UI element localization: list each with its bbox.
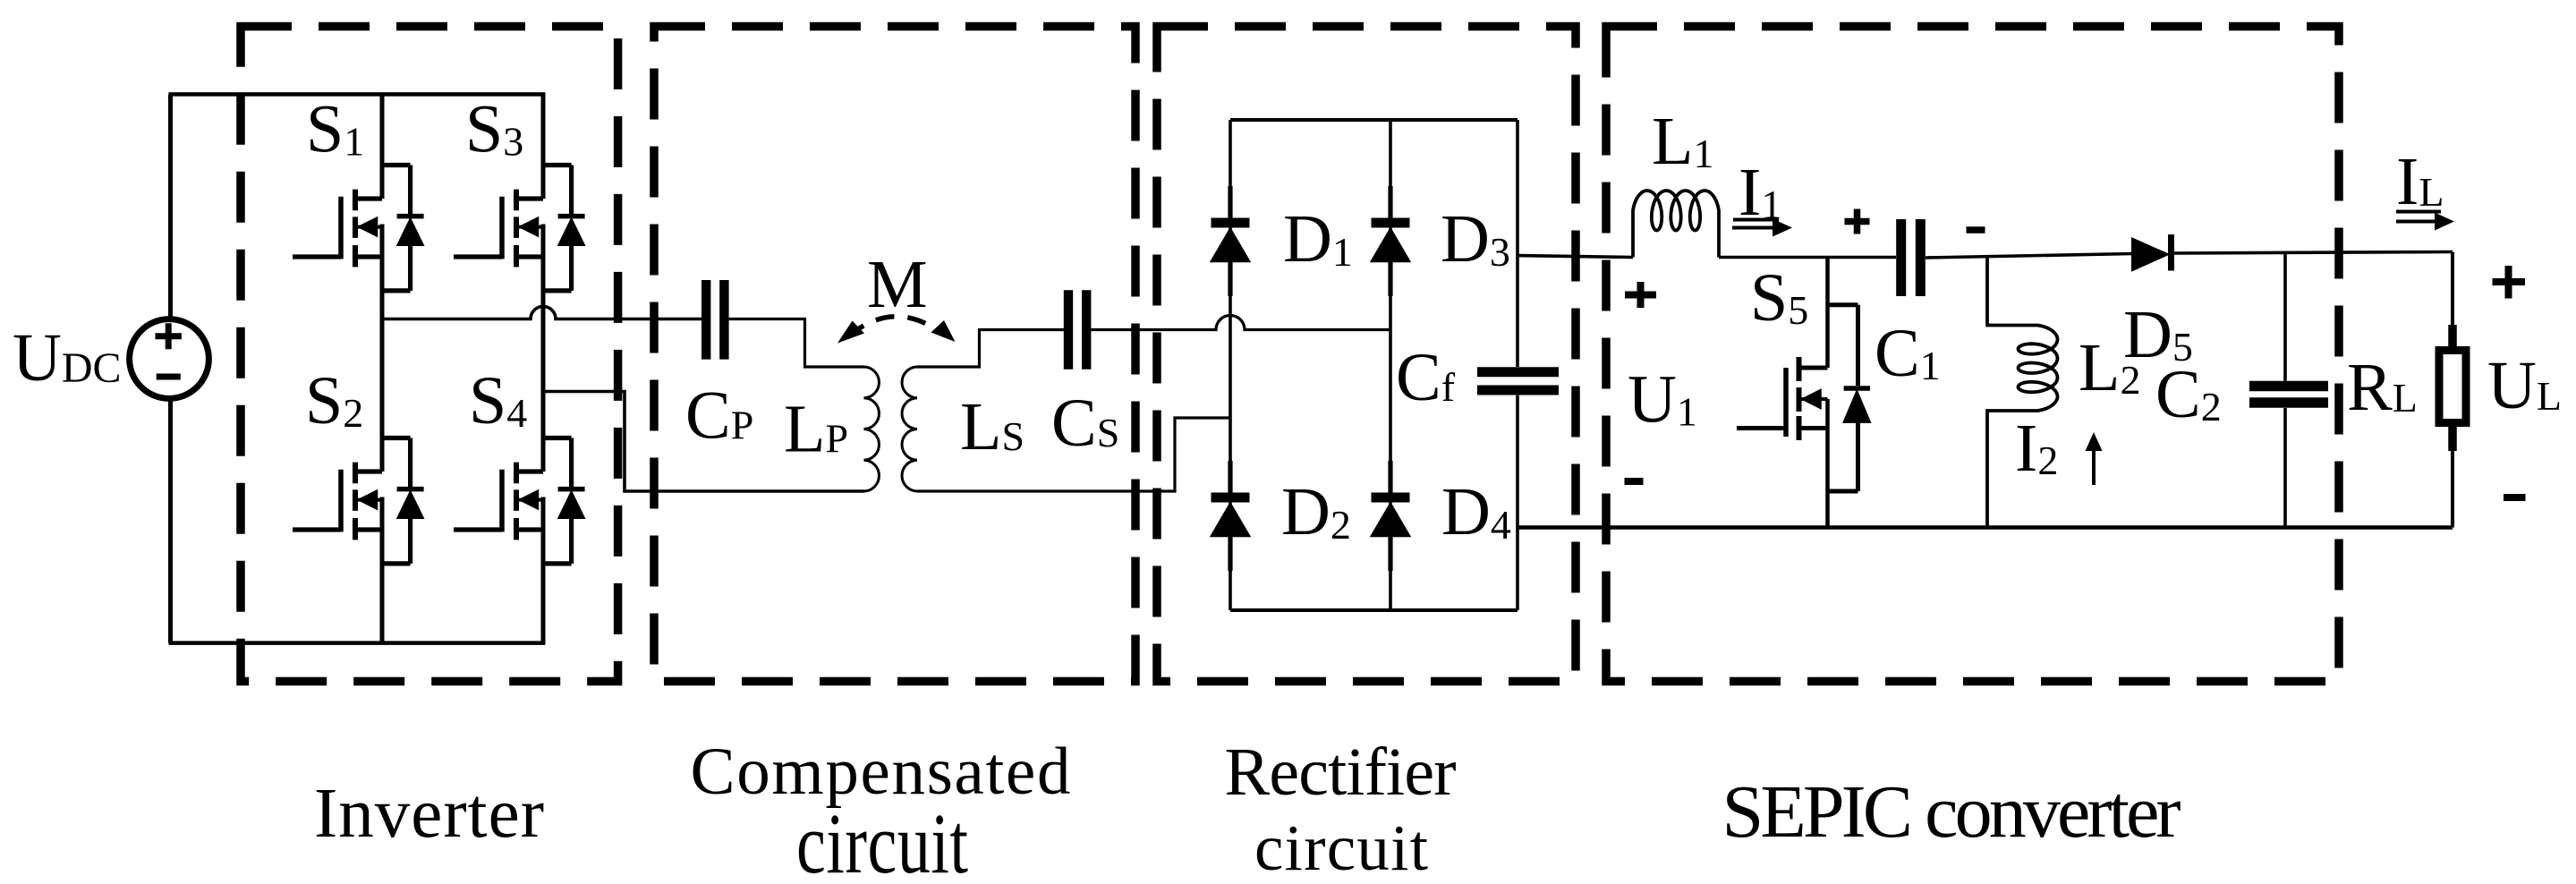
transistor S1 bbox=[293, 166, 424, 291]
dashed box SEPIC converter bbox=[1606, 27, 2339, 682]
current arrow IL bbox=[2396, 210, 2441, 214]
transistor S5 bbox=[1737, 258, 1870, 528]
dashed box Rectifier circuit bbox=[1157, 27, 1576, 682]
plus sign C1 bbox=[1845, 209, 1870, 234]
voltage source UDC bbox=[130, 319, 209, 399]
wire leg S1-S2 bbox=[380, 94, 385, 642]
node A wire to CP with hop over S3 leg bbox=[382, 307, 701, 319]
diode D4 bbox=[1372, 461, 1410, 571]
minus sign UL bbox=[2504, 494, 2526, 501]
wire CS to rectifier with hop over D1 leg bbox=[1091, 316, 1390, 330]
minus sign C1 bbox=[1967, 226, 1985, 234]
transistor S4 bbox=[454, 438, 585, 564]
mutual coupling arrow M bbox=[848, 317, 945, 336]
wire CP to LP bbox=[729, 319, 864, 368]
dashed box Inverter bbox=[241, 27, 618, 682]
svg-text:M: M bbox=[867, 247, 928, 322]
svg-text:Inverter: Inverter bbox=[314, 775, 544, 853]
inductor LP bbox=[864, 367, 880, 491]
rectifier bottom rail bbox=[1230, 608, 1518, 612]
capacitor C2 bbox=[2283, 252, 2287, 528]
svg-text:SEPIC converter: SEPIC converter bbox=[1722, 770, 2181, 854]
wire LS top to CS bbox=[917, 330, 1064, 368]
node B wire S3/S4 junction to LP return bbox=[543, 392, 864, 492]
diode D5 bbox=[2132, 239, 2168, 271]
capacitor CS bbox=[1068, 290, 1086, 370]
wire leg D1-D2 bbox=[1228, 120, 1232, 610]
wire leg S3-S4 bbox=[541, 94, 546, 642]
wire LS bottom to rectifier D1/D2 node bbox=[917, 418, 1230, 491]
rectifier top rail bbox=[1230, 118, 1518, 122]
wire C1 to D5 bbox=[1926, 254, 2132, 259]
diode D2 bbox=[1211, 461, 1250, 571]
wire inverter bottom rail bbox=[169, 641, 546, 645]
capacitor Cf bbox=[1477, 372, 1559, 390]
wire inverter top rail bbox=[169, 92, 546, 97]
svg-text:circuit: circuit bbox=[796, 796, 968, 884]
diode D1 bbox=[1211, 186, 1250, 296]
wire rectifier output+ to L1 bbox=[1518, 256, 1633, 258]
current arrow I2 bbox=[2092, 445, 2096, 485]
svg-text:circuit: circuit bbox=[1254, 812, 1428, 884]
minus sign U1 bbox=[1625, 478, 1644, 485]
bottom rail SEPIC bbox=[1518, 525, 2453, 530]
wire UDC top lead bbox=[168, 94, 173, 319]
transistor S3 bbox=[454, 166, 585, 291]
wire D5 to load corner bbox=[2174, 252, 2453, 254]
svg-text:Rectifier: Rectifier bbox=[1225, 735, 1457, 810]
dashed box Compensated circuit bbox=[654, 27, 1135, 682]
wire L1 to C1 bbox=[1719, 256, 1896, 259]
capacitor CP bbox=[706, 280, 724, 360]
inductor L1 bbox=[1633, 191, 1719, 258]
wire UDC bottom lead bbox=[168, 398, 173, 642]
diode D3 bbox=[1372, 186, 1410, 296]
wire output leg Cf bbox=[1516, 120, 1519, 610]
plus sign U1 bbox=[1625, 282, 1656, 308]
capacitor C1 bbox=[1901, 219, 1921, 296]
transistor S2 bbox=[293, 438, 424, 564]
inductor LS bbox=[902, 367, 917, 491]
plus sign UL bbox=[2493, 266, 2526, 299]
inductor L2 bbox=[1987, 257, 2058, 528]
wire leg D3-D4 bbox=[1389, 120, 1392, 610]
current arrow I1 bbox=[1733, 218, 1779, 222]
resistor RL bbox=[2448, 325, 2457, 451]
load loop wires bbox=[2451, 252, 2454, 528]
